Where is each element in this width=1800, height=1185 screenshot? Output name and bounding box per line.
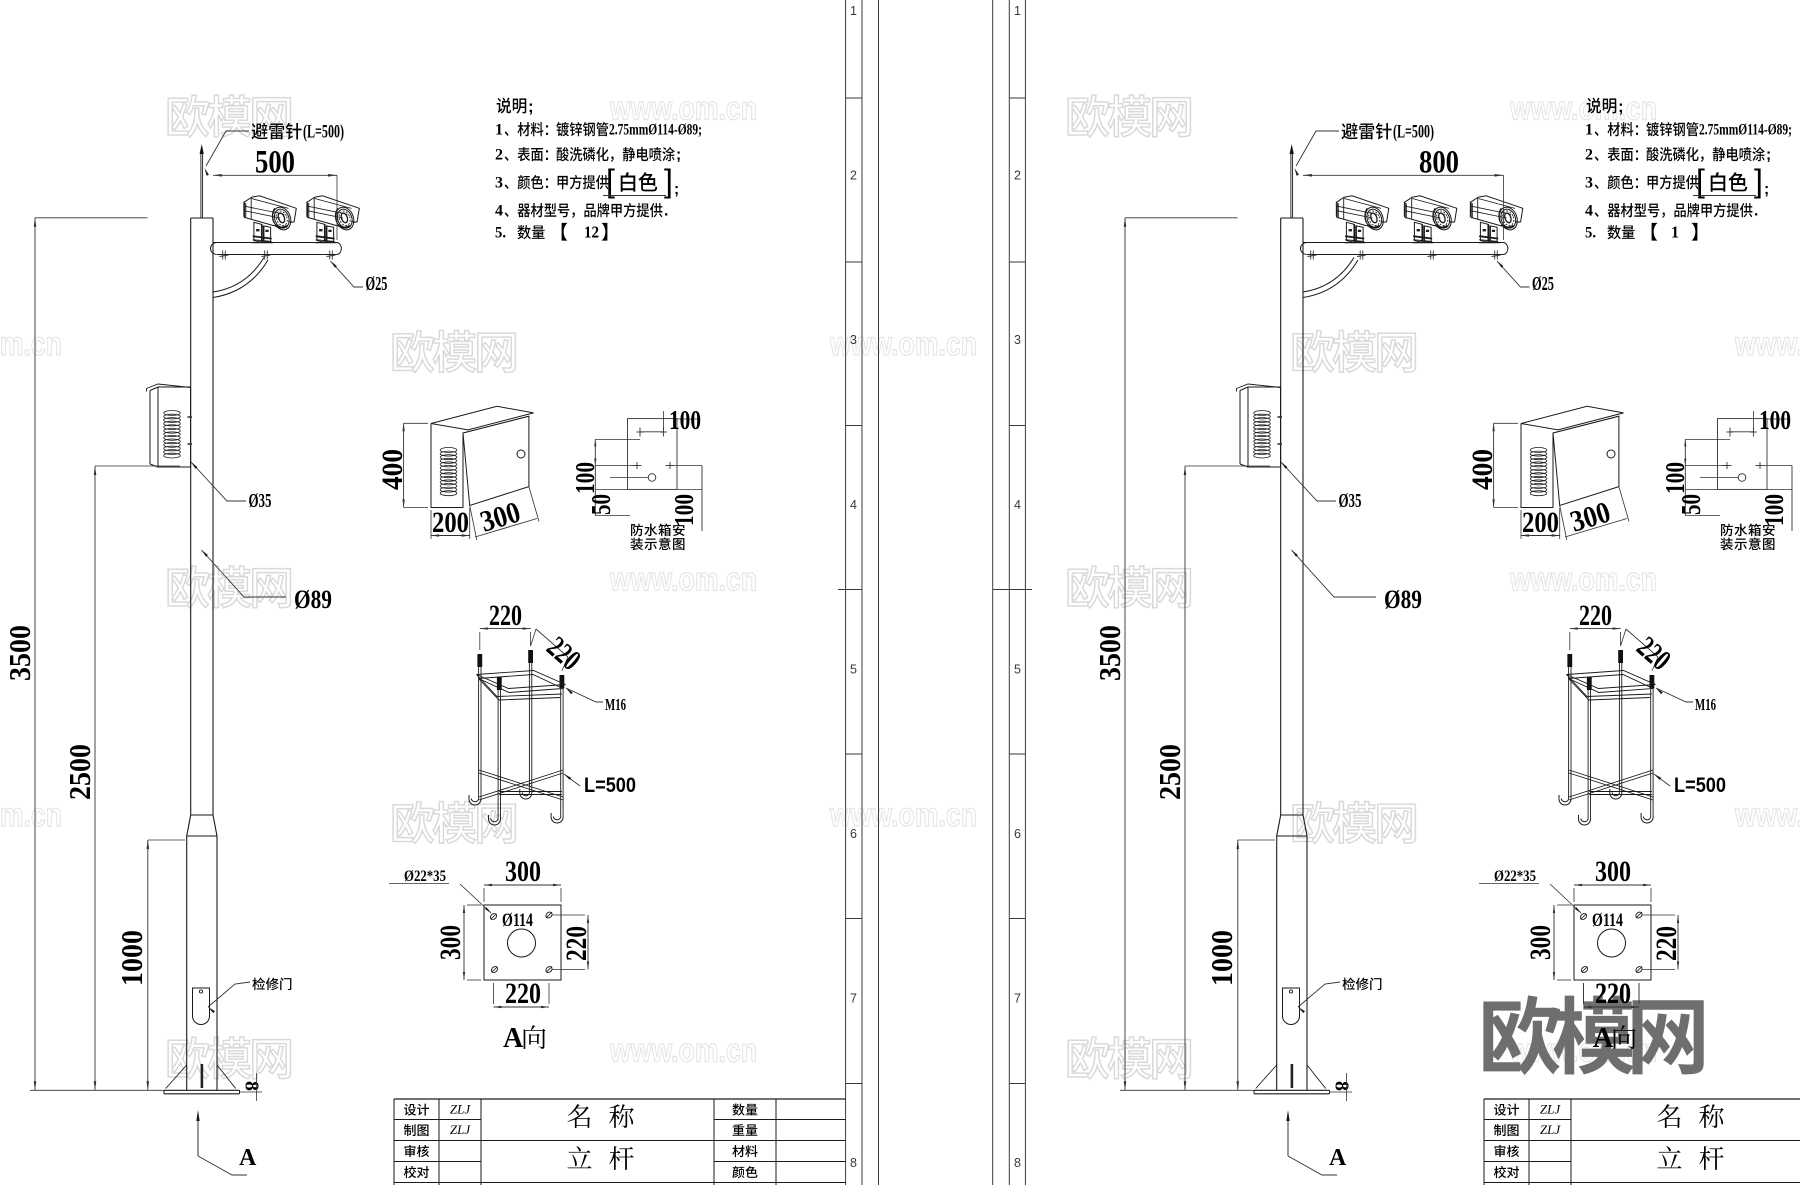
waterproof box detail drawing: [1521, 406, 1624, 430]
svg-text:1: 1: [1014, 4, 1021, 18]
mounting diagram 防水箱安装示意图: [628, 419, 678, 490]
plate dim 220 right: [1677, 915, 1679, 970]
anchor bolt cage detail: [1568, 654, 1570, 799]
plate dim 300 left: [463, 905, 465, 980]
svg-text:Ø35: Ø35: [1339, 490, 1362, 512]
svg-text:4: 4: [850, 498, 857, 512]
camera cross arm (Ø25): [1303, 242, 1504, 244]
svg-text:4: 4: [1014, 498, 1021, 512]
svg-text:ZLJ: ZLJ: [1540, 1122, 1561, 1137]
svg-text:7: 7: [1014, 992, 1021, 1006]
svg-text:3: 3: [850, 333, 857, 347]
label 避雷针(L=500): [251, 123, 301, 140]
anchor bolt cage detail: [478, 654, 480, 799]
svg-text:500: 500: [255, 145, 295, 181]
svg-text:4: 4: [1585, 203, 1593, 220]
svg-text:2.75mmØ114-Ø89;: 2.75mmØ114-Ø89;: [609, 122, 702, 139]
svg-text:Ø25: Ø25: [366, 273, 388, 295]
svg-text:7: 7: [850, 992, 857, 1006]
CCTV camera 2: [1404, 196, 1457, 243]
Ø35 label leader: [1281, 462, 1336, 501]
CCTV camera 3: [1470, 196, 1523, 243]
svg-text:1000: 1000: [1204, 930, 1239, 986]
svg-text:ZLJ: ZLJ: [450, 1122, 471, 1137]
svg-text:3: 3: [495, 175, 503, 192]
cage dimension 220 (slanted): [536, 629, 568, 657]
svg-text:300: 300: [1524, 925, 1557, 960]
svg-text:1: 1: [850, 4, 857, 18]
svg-text:www.om.cn: www.om.cn: [0, 796, 62, 833]
svg-text:3: 3: [1014, 333, 1021, 347]
svg-text:www.om.cn: www.om.cn: [1734, 325, 1800, 362]
svg-text:2: 2: [1585, 147, 1593, 164]
sheet frame / zone bands: [845, 0, 847, 1185]
svg-text:M16: M16: [1695, 695, 1716, 714]
svg-text:3500: 3500: [2, 625, 37, 681]
svg-text:A: A: [1329, 1145, 1347, 1171]
svg-text:100: 100: [570, 462, 600, 494]
svg-text:100: 100: [1660, 462, 1690, 494]
Ø35 label leader: [191, 462, 246, 501]
title block: [394, 1098, 846, 1100]
cable slot at pole bottom: [191, 217, 213, 219]
svg-text:Ø25: Ø25: [1532, 273, 1554, 295]
svg-text:220: 220: [560, 926, 593, 961]
svg-text:3500: 3500: [1092, 625, 1127, 681]
svg-text:www.om.cn: www.om.cn: [609, 1032, 757, 1069]
view arrow A: [197, 1113, 199, 1156]
svg-text:1: 1: [1585, 122, 1593, 139]
svg-text:L=500: L=500: [584, 774, 636, 797]
svg-text:100: 100: [1759, 494, 1789, 526]
svg-text:A: A: [1593, 1023, 1614, 1054]
svg-text:;: ;: [674, 181, 679, 198]
svg-text:100: 100: [669, 405, 701, 435]
svg-text:]: ]: [1754, 163, 1763, 199]
label 避雷针(L=500): [1341, 123, 1391, 140]
box dimension 200: [1520, 510, 1522, 539]
svg-text:8: 8: [241, 1081, 263, 1091]
overall height dimension 3500: [34, 218, 36, 1091]
svg-text:200: 200: [1522, 506, 1559, 539]
svg-text:.: .: [1754, 203, 1758, 220]
arm span dimension 500: [213, 174, 337, 176]
ground reference line: [1120, 1089, 1254, 1091]
svg-text:400: 400: [1466, 449, 1499, 490]
svg-text:ZLJ: ZLJ: [1540, 1102, 1561, 1117]
svg-text:300: 300: [1595, 855, 1631, 888]
dimension 2500: [1184, 466, 1186, 1090]
L=500 label: [1654, 774, 1670, 786]
M16 label: [566, 688, 603, 702]
svg-text:220: 220: [1595, 977, 1631, 1010]
CCTV camera 2: [307, 196, 360, 243]
plate dim 220 bottom: [1584, 1006, 1640, 1008]
access door label 检修门: [1298, 982, 1340, 1007]
ground reference line: [30, 1089, 164, 1091]
M16 label: [1656, 688, 1693, 702]
overall height dimension 3500: [1124, 218, 1126, 1091]
box dimension 400: [1493, 423, 1495, 507]
svg-text:M16: M16: [605, 695, 626, 714]
svg-text:;: ;: [1618, 97, 1624, 116]
svg-text:200: 200: [432, 506, 469, 539]
svg-text:6: 6: [1014, 827, 1021, 841]
svg-text:2: 2: [495, 147, 503, 164]
Ø89 label leader: [202, 550, 287, 597]
svg-text:;: ;: [1766, 147, 1771, 164]
box dimension 300 (slanted): [475, 519, 537, 538]
svg-text:;: ;: [676, 147, 681, 164]
plate dim 220 bottom: [494, 1006, 550, 1008]
svg-text:5.: 5.: [1585, 225, 1596, 242]
access door label 检修门: [208, 982, 250, 1007]
svg-text:5: 5: [850, 662, 857, 676]
svg-text:1: 1: [495, 122, 503, 139]
svg-text:Ø114: Ø114: [502, 910, 533, 931]
svg-text:]: ]: [664, 163, 673, 199]
svg-text:www.om.cn: www.om.cn: [0, 325, 62, 362]
cage dimension 220 (top): [1570, 628, 1621, 630]
lightning rod label leader: [206, 131, 249, 166]
waterproof box on pole: [1248, 387, 1281, 467]
plate dim 300 left: [1553, 905, 1555, 980]
access door slot (检修门): [1283, 988, 1300, 1025]
waterproof box detail drawing: [431, 406, 534, 430]
svg-text:Ø114: Ø114: [1592, 910, 1623, 931]
box dimension 200: [430, 510, 432, 539]
svg-text:www.om.cn: www.om.cn: [1734, 796, 1800, 833]
svg-text:3: 3: [1585, 175, 1593, 192]
cable slot at pole bottom: [1281, 217, 1303, 219]
large gray watermark 欧模网 (bottom right): [1483, 995, 1703, 1075]
box dimension 300 (slanted): [1565, 519, 1627, 538]
CCTV camera 1: [244, 196, 296, 243]
svg-text:(L=500): (L=500): [303, 122, 344, 143]
lightning rod (避雷针): [1290, 153, 1292, 218]
svg-text:5: 5: [1014, 662, 1021, 676]
svg-text:2: 2: [1014, 169, 1021, 183]
cage dimension 220 (slanted): [1626, 629, 1658, 657]
curved support brace: [1303, 258, 1354, 293]
Ø25 label leader: [331, 261, 364, 287]
camera cross arm (Ø25): [213, 242, 337, 244]
base plate detail (view A): [1574, 905, 1651, 980]
mounting diagram 防水箱安装示意图: [1718, 419, 1768, 490]
notes block 说明: [497, 98, 527, 114]
view arrow A: [1287, 1113, 1289, 1156]
svg-text:;: ;: [528, 97, 534, 116]
svg-text:A: A: [503, 1023, 524, 1054]
svg-text:2500: 2500: [1152, 744, 1187, 800]
svg-text:800: 800: [1419, 145, 1459, 181]
svg-text:[: [: [1696, 163, 1705, 199]
svg-text:www.om.cn: www.om.cn: [1509, 561, 1657, 598]
svg-text:L=500: L=500: [1674, 774, 1726, 797]
svg-text:220: 220: [505, 977, 541, 1010]
svg-text:2500: 2500: [62, 744, 97, 800]
svg-text:8: 8: [850, 1156, 857, 1170]
dimension 1000: [147, 840, 149, 1090]
box dimension 400: [403, 423, 405, 507]
svg-text:220: 220: [1650, 926, 1683, 961]
Ø25 label leader: [1497, 261, 1530, 287]
svg-text:6: 6: [850, 827, 857, 841]
lightning rod (避雷针): [200, 153, 202, 218]
waterproof box on pole: [158, 387, 191, 467]
svg-text:2.75mmØ114-Ø89;: 2.75mmØ114-Ø89;: [1699, 122, 1792, 139]
Ø89 label leader: [1292, 550, 1377, 597]
svg-text:4: 4: [495, 203, 503, 220]
dimension 1000: [1237, 840, 1239, 1090]
svg-text:8: 8: [1331, 1081, 1353, 1091]
base plate detail (view A): [484, 905, 561, 980]
svg-text:100: 100: [669, 494, 699, 526]
lightning rod label leader: [1296, 131, 1339, 166]
plate dim 220 right: [587, 915, 589, 970]
svg-text:Ø89: Ø89: [1384, 585, 1422, 614]
svg-text:300: 300: [505, 855, 541, 888]
svg-text:[: [: [606, 163, 615, 199]
svg-text:300: 300: [434, 925, 467, 960]
watermark tile rows (decorative): [168, 95, 290, 137]
svg-text:400: 400: [376, 449, 409, 490]
svg-text:50: 50: [586, 494, 616, 515]
svg-text:Ø35: Ø35: [249, 490, 272, 512]
CCTV camera 1: [1336, 196, 1389, 243]
svg-text:8: 8: [1014, 1156, 1021, 1170]
svg-text:5.: 5.: [495, 225, 506, 242]
svg-text:Ø22*35: Ø22*35: [1494, 868, 1536, 885]
svg-text:Ø89: Ø89: [294, 585, 332, 614]
svg-text:(L=500): (L=500): [1393, 122, 1434, 143]
svg-text:www.om.cn: www.om.cn: [1509, 90, 1657, 127]
svg-text:1000: 1000: [114, 930, 149, 986]
svg-text:2: 2: [850, 169, 857, 183]
svg-text:.: .: [664, 203, 668, 220]
plate dim 300 top: [1574, 884, 1651, 886]
arm span dimension 800: [1303, 174, 1504, 176]
L=500 label: [564, 774, 580, 786]
svg-text:Ø22*35: Ø22*35: [404, 868, 446, 885]
svg-text:www.om.cn: www.om.cn: [609, 561, 757, 598]
svg-text:12: 12: [584, 223, 599, 242]
svg-text:A: A: [239, 1145, 257, 1171]
svg-text:220: 220: [489, 599, 522, 632]
svg-text:220: 220: [1579, 599, 1612, 632]
access door slot (检修门): [193, 988, 210, 1025]
svg-text:ZLJ: ZLJ: [450, 1102, 471, 1117]
notes block 说明: [1587, 98, 1617, 114]
svg-text:100: 100: [1759, 405, 1791, 435]
svg-text:;: ;: [1764, 181, 1769, 198]
curved support brace: [213, 258, 264, 293]
title block: [1484, 1098, 1800, 1100]
cage dimension 220 (top): [480, 628, 531, 630]
overprint right sheet A向 + 220 labels above watermark: [1583, 983, 1585, 1004]
dimension 2500: [94, 466, 96, 1090]
svg-text:50: 50: [1676, 494, 1706, 515]
svg-text:1: 1: [1671, 223, 1679, 242]
plate dim 300 top: [484, 884, 561, 886]
